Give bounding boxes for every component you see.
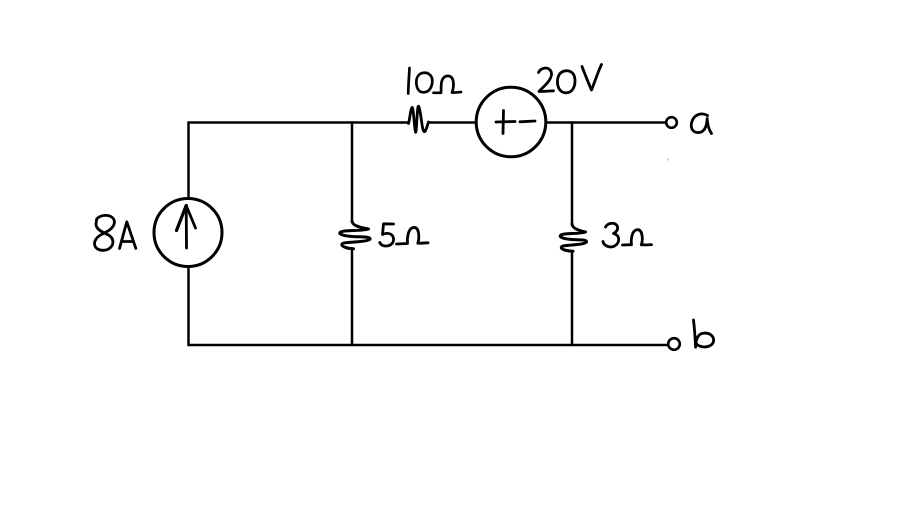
label a [691, 114, 711, 134]
label b [694, 320, 714, 347]
current source I1 8A [154, 199, 222, 267]
voltage source V1 20V [476, 87, 546, 157]
label 8A [95, 215, 136, 250]
wire from node to terminal a [572, 121, 666, 124]
wire middle vertical bottom [351, 249, 354, 345]
label 10ohm [408, 68, 461, 94]
wire top-left horizontal segment [189, 121, 409, 124]
label 20V [539, 65, 602, 93]
wire from 20V source to node at top of 3ohm [546, 121, 572, 124]
wire left vertical top (current source to top wire) [187, 123, 190, 199]
wire middle vertical top [351, 123, 354, 222]
stray faint dot [667, 158, 669, 160]
wire right vertical bottom [571, 251, 574, 345]
label 3ohm [603, 223, 652, 247]
resistor 3ohm (shunt squiggle) [560, 224, 586, 251]
wire right vertical top [571, 123, 574, 225]
wire left vertical bottom (current source to bottom wire) [187, 267, 190, 346]
terminal b [668, 338, 680, 350]
wire between 10ohm and 20V source [429, 121, 477, 124]
resistor 10ohm (series squiggle) [409, 106, 429, 132]
resistor 5ohm (shunt squiggle) [340, 221, 370, 249]
wire bottom horizontal [189, 344, 669, 347]
label 5ohm [380, 224, 428, 246]
terminal a [666, 117, 677, 128]
